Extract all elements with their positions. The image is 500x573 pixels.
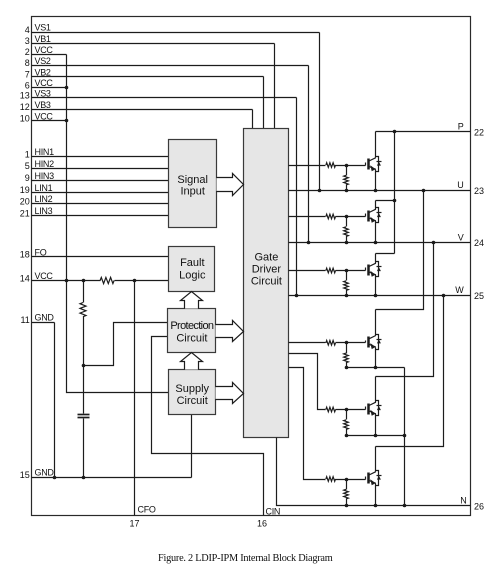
svg-text:18: 18 [20,250,30,260]
svg-text:15: 15 [20,470,30,480]
pin 15 GND [20,468,192,480]
pin 4 VS1 [25,23,320,35]
svg-text:9: 9 [25,173,30,183]
svg-text:20: 20 [20,196,30,206]
svg-text:Input: Input [180,186,204,198]
resistor RG5 (gate) [326,407,336,412]
node V rail [289,232,485,248]
wire CIN net: Protection input to pin 16 [152,337,264,516]
svg-text:HIN3: HIN3 [35,171,55,181]
svg-text:HIN2: HIN2 [35,159,55,169]
pin 17 CFO label [129,504,155,528]
svg-text:5: 5 [25,161,30,171]
svg-text:CFO: CFO [138,504,156,514]
transistor Q3 high-side W (IGBT) [369,254,376,296]
wire VS1 down to U rail [319,33,321,191]
svg-text:LIN2: LIN2 [35,194,53,204]
resistor RGE6 (gate-emitter) [344,480,349,506]
node U rail [289,180,485,196]
diode D4 (freewheel) [376,335,382,350]
wire gate feed Q2 [289,214,366,217]
pin 8 VS2 [25,56,309,68]
wire W rail drop to Q6 collector [376,296,444,447]
resistor RGE1 (gate-emitter) [344,166,349,191]
wire Supply Circuit to GND15 [191,415,193,478]
svg-text:17: 17 [129,518,139,528]
svg-text:Driver: Driver [252,264,282,276]
transistor Q2 high-side V (IGBT) [369,201,376,243]
svg-text:GND: GND [35,468,55,478]
svg-text:U: U [457,180,463,190]
svg-text:VCC: VCC [35,45,54,55]
node N rail [277,438,485,512]
wire P rail drop to Q2/Q3 collectors [394,132,396,254]
pin 14 VCC [20,271,169,283]
block Supply Circuit U4 [169,370,216,415]
svg-text:Figure. 2 LDIP-IPM Internal Bl: Figure. 2 LDIP-IPM Internal Block Diagra… [158,553,333,564]
arrow Protection Circuit to Fault Logic [181,292,203,309]
svg-text:N: N [460,496,466,506]
wire node to Protection Circuit input [84,323,168,366]
wire GND11 down to GND15 [54,323,56,478]
wire U rail drop to Q4 collector [376,191,424,310]
svg-text:3: 3 [25,36,30,46]
pin 21 LIN3 [20,206,169,218]
svg-text:7: 7 [25,70,30,80]
svg-text:Circuit: Circuit [176,332,207,344]
svg-text:Fault: Fault [180,257,204,269]
svg-text:8: 8 [25,58,30,68]
diode D3 (freewheel) [376,262,382,277]
capacitor C supply [78,366,90,478]
svg-text:VS3: VS3 [35,88,51,98]
pin 1 HIN1 [25,147,169,159]
svg-text:P: P [458,121,464,131]
wire VS3 down to W rail [296,98,298,296]
svg-text:2: 2 [25,47,30,57]
svg-text:19: 19 [20,185,30,195]
pin 2 VCC [25,45,67,57]
svg-text:21: 21 [20,208,30,218]
arrow Signal Input to Gate Driver [217,174,244,196]
wire CFO net: VCC line to pin 17 [134,281,136,516]
svg-text:26: 26 [474,502,484,512]
wire gate feed Q4 [289,341,366,343]
svg-text:VS1: VS1 [35,23,51,33]
diode D2 (freewheel) [376,208,382,223]
svg-text:W: W [455,285,464,295]
pin 7 VB2 [25,67,264,79]
pin 13 VS3 [20,88,297,100]
wire VB3 to Gate Driver top [252,110,254,129]
resistor on VCC pin-14 line [100,277,114,283]
arrow Protection Circuit to Gate Driver [216,321,244,342]
svg-text:12: 12 [20,102,30,112]
svg-text:GND: GND [35,313,55,323]
transistor Q6 low-side W (IGBT) [369,447,376,506]
pin 12 VB3 [20,100,253,112]
svg-text:V: V [458,232,464,242]
resistor RGE5 (gate-emitter) [344,410,349,436]
wire Gate Driver to Q5 gate [289,354,326,410]
node P rail [376,121,485,137]
wire Gate Driver to Q6 gate [289,368,326,480]
svg-text:HIN1: HIN1 [35,147,55,157]
transistor Q1 high-side U (IGBT) [369,132,376,191]
resistor RG1 (gate) [326,163,336,168]
diode D5 (freewheel) [376,401,382,416]
block Gate Driver Circuit U5 [244,129,289,438]
arrow Supply Circuit to Protection Circuit [181,353,203,370]
wire gate feed Q6 [325,477,366,480]
svg-text:LIN3: LIN3 [35,206,53,216]
svg-text:VB1: VB1 [35,34,51,44]
module outline frame [32,17,471,516]
svg-text:Protection: Protection [170,320,214,332]
svg-text:23: 23 [474,186,484,196]
svg-text:11: 11 [20,315,29,325]
resistor RGE3 (gate-emitter) [344,271,349,296]
wire VB2 to Gate Driver top [263,77,265,129]
diode D6 (freewheel) [376,471,382,486]
block Signal Input U1 [169,140,217,228]
wire VS2 down to V rail [308,66,310,243]
svg-text:Supply: Supply [175,383,209,395]
svg-text:24: 24 [474,238,484,248]
block Fault Logic U2 [169,247,215,292]
transistor Q5 low-side V (IGBT) [369,377,376,436]
wire VCC trunk (pins 2/6/10/14) down to Supply Circuit [67,55,169,393]
node W rail [289,285,485,301]
svg-text:Circuit: Circuit [251,276,282,288]
wire gate feed Q5 [325,407,366,410]
wire Q5 emitter line [347,435,405,437]
wire gate feed Q3 [289,268,366,271]
svg-text:6: 6 [25,80,30,90]
pin 3 VB1 [25,34,275,46]
wire Q2 collector jog [376,200,395,202]
wire V rail drop to Q5 collector [376,243,434,377]
svg-text:VCC: VCC [35,111,54,121]
svg-text:VS2: VS2 [35,56,51,66]
svg-text:1: 1 [25,149,30,159]
svg-text:22: 22 [474,127,484,137]
svg-text:4: 4 [25,25,30,35]
resistor RGE2 (gate-emitter) [344,217,349,243]
block Protection Circuit U3 [168,309,216,353]
svg-text:Logic: Logic [179,270,206,282]
resistor RG3 (gate) [326,268,336,273]
wire Q4 emitter line [347,367,405,369]
pin 11 GND [20,313,54,325]
resistor RG4 (gate) [326,341,336,346]
resistor RG6 (gate) [326,477,336,482]
wire gate feed Q1 [289,163,366,166]
svg-text:25: 25 [474,291,484,301]
wire VB1 to Gate Driver top [274,44,276,129]
svg-text:Gate: Gate [254,252,278,264]
svg-text:VCC: VCC [35,271,54,281]
pin 16 CIN label [257,506,280,528]
svg-text:14: 14 [20,273,30,283]
diode D1 (freewheel) [376,157,382,172]
svg-text:LIN1: LIN1 [35,183,53,193]
svg-text:16: 16 [257,518,267,528]
pin 18 FO [20,248,169,260]
svg-text:CIN: CIN [266,506,281,516]
pin 5 HIN2 [25,159,169,171]
transistor Q4 low-side U (IGBT) [369,310,376,368]
wire Q3 collector jog [376,253,395,255]
resistor RGE4 (gate-emitter) [344,343,349,368]
svg-text:13: 13 [20,91,30,101]
pin 20 LIN2 [20,194,169,206]
svg-text:Circuit: Circuit [177,395,208,407]
svg-text:10: 10 [20,114,30,124]
pin 19 LIN1 [20,183,169,195]
pin 10 VCC [20,111,67,123]
wire low-side emitter bus to N [404,368,406,506]
resistor RG2 (gate) [326,214,336,219]
svg-text:VCC: VCC [35,78,54,88]
arrow Supply Circuit to Gate Driver [216,383,244,404]
pin 9 HIN3 [25,171,169,183]
pin 6 VCC [25,78,67,90]
svg-text:Signal: Signal [177,174,208,186]
svg-text:VB3: VB3 [35,100,51,110]
resistor VCC filter (vertical) [80,281,86,366]
